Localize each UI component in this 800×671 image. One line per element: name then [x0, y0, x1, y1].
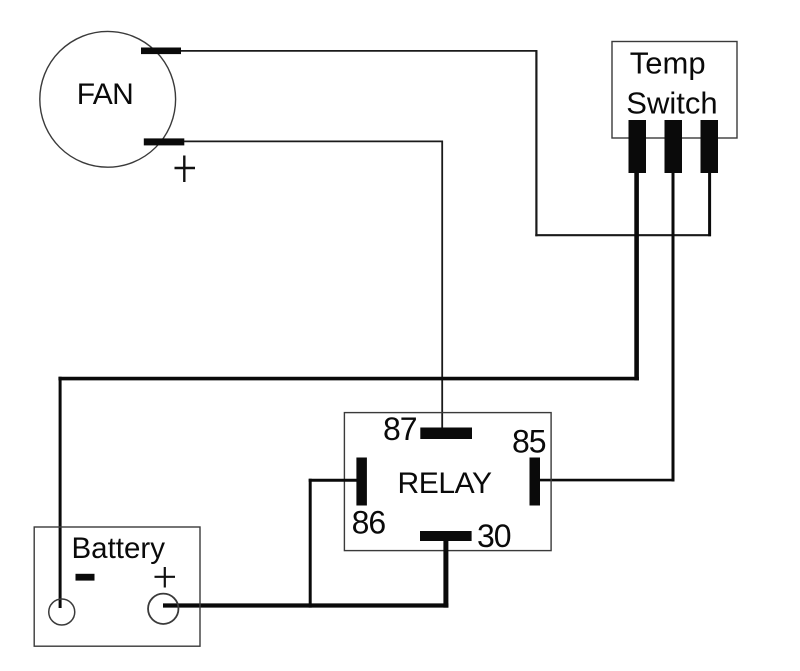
wire temp switch terminal 2 vertical — [672, 171, 675, 482]
wire temp switch terminal 1 ground, vertical — [634, 171, 639, 380]
fan negative terminal bar — [141, 48, 181, 55]
svg-text:FAN: FAN — [77, 78, 133, 111]
wire segment vertical to terminal 3 — [708, 171, 711, 236]
battery minus mark — [76, 574, 95, 581]
relay K1 box — [344, 413, 551, 551]
svg-text:Switch: Switch — [626, 86, 717, 121]
wire relay 86 horizontal — [309, 479, 357, 482]
wire ground vertical to battery minus — [59, 377, 62, 608]
fan positive terminal bar — [144, 138, 185, 145]
temp switch terminal 2 bar — [665, 120, 683, 173]
svg-text:86: 86 — [352, 505, 386, 541]
wire fan negative to temp switch terminal 3, horizontal top — [181, 50, 537, 52]
svg-text:Battery: Battery — [72, 532, 166, 565]
relay pin 30 terminal bar — [420, 531, 472, 541]
temp switch terminal 1 bar — [629, 120, 647, 173]
battery plus mark — [155, 567, 176, 588]
relay pin 87 terminal bar — [420, 428, 472, 440]
relay pin 86 terminal bar — [356, 458, 367, 506]
wire fan positive horizontal — [184, 140, 443, 142]
wire horizontal to relay 85 — [539, 479, 675, 482]
wire ground horizontal y=378 — [58, 377, 639, 381]
wire segment vertical x=536 — [535, 50, 537, 236]
wire relay 30 vertical down — [443, 541, 448, 608]
battery minus terminal circle — [49, 599, 75, 625]
svg-text:30: 30 — [477, 518, 511, 554]
battery BT1 box — [34, 527, 200, 646]
fan M1 body circle — [40, 31, 176, 167]
relay pin 85 terminal bar — [530, 458, 541, 506]
wire relay 86 vertical down — [309, 479, 312, 608]
wire segment horizontal y=235 — [535, 234, 711, 236]
fan plus polarity mark — [175, 156, 196, 183]
svg-text:Temp: Temp — [630, 45, 706, 80]
battery plus terminal circle — [148, 594, 178, 624]
wire battery plus horizontal — [163, 603, 448, 607]
svg-text:85: 85 — [512, 424, 546, 460]
svg-text:87: 87 — [383, 411, 417, 447]
temp switch terminal 3 bar — [701, 120, 719, 173]
temp switch S1 box — [612, 42, 737, 139]
wire fan positive vertical down to relay 87 — [441, 141, 443, 429]
svg-text:RELAY: RELAY — [398, 467, 493, 500]
